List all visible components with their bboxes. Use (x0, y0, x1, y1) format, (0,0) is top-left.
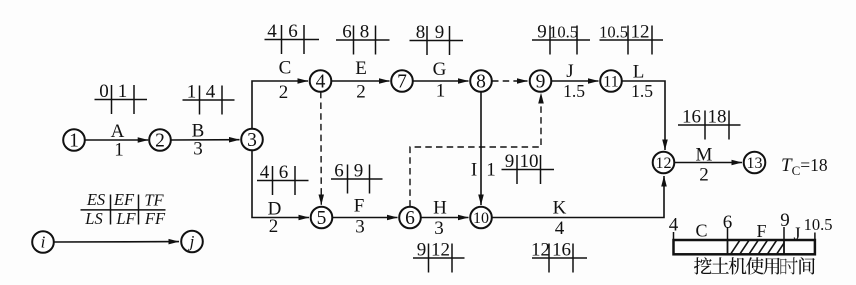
svg-text:1: 1 (436, 81, 446, 102)
svg-text:1.5: 1.5 (563, 81, 585, 101)
svg-text:5: 5 (317, 208, 327, 229)
svg-text:2: 2 (356, 82, 366, 103)
svg-text:TF: TF (144, 190, 164, 209)
svg-text:G: G (433, 59, 447, 80)
svg-text:4: 4 (206, 82, 216, 103)
svg-text:J: J (793, 224, 800, 244)
svg-text:9: 9 (780, 210, 790, 231)
svg-text:F: F (354, 196, 365, 217)
svg-text:H: H (433, 198, 447, 219)
svg-text:E: E (355, 58, 367, 79)
svg-text:4: 4 (316, 72, 326, 93)
svg-text:12: 12 (431, 240, 450, 261)
svg-text:16: 16 (682, 107, 701, 128)
svg-text:0: 0 (99, 81, 109, 102)
svg-text:L: L (633, 62, 645, 83)
svg-text:6: 6 (288, 21, 298, 42)
svg-text:1.5: 1.5 (631, 81, 653, 101)
svg-text:2: 2 (279, 82, 289, 103)
svg-text:ES: ES (86, 190, 105, 209)
svg-text:13: 13 (747, 155, 763, 172)
svg-text:3: 3 (434, 218, 444, 239)
svg-text:1: 1 (486, 160, 496, 181)
svg-text:10.5: 10.5 (804, 215, 833, 234)
svg-text:FF: FF (144, 209, 166, 228)
svg-text:9: 9 (417, 240, 427, 261)
svg-text:9: 9 (435, 22, 445, 43)
svg-text:K: K (553, 198, 567, 219)
svg-text:10.5: 10.5 (599, 23, 628, 42)
svg-text:16: 16 (552, 240, 571, 261)
svg-text:I: I (471, 160, 477, 181)
svg-text:1: 1 (187, 82, 197, 103)
svg-text:9: 9 (536, 72, 546, 93)
svg-text:12: 12 (531, 240, 550, 261)
svg-text:1: 1 (69, 131, 79, 152)
svg-text:j: j (188, 232, 195, 251)
svg-text:10.5: 10.5 (549, 23, 578, 42)
svg-text:8: 8 (476, 72, 486, 93)
svg-text:3: 3 (247, 130, 257, 151)
svg-text:9: 9 (354, 161, 364, 182)
svg-text:3: 3 (355, 217, 365, 238)
svg-text:4: 4 (267, 21, 277, 42)
svg-text:4: 4 (555, 218, 565, 239)
svg-text:9: 9 (537, 22, 547, 43)
svg-text:i: i (41, 233, 46, 252)
svg-text:LF: LF (115, 209, 136, 228)
svg-text:6: 6 (334, 161, 344, 182)
svg-text:7: 7 (397, 72, 407, 93)
svg-text:J: J (566, 61, 573, 82)
svg-text:2: 2 (155, 131, 165, 152)
svg-text:2: 2 (269, 216, 279, 237)
svg-text:8: 8 (416, 22, 426, 43)
svg-text:12: 12 (631, 22, 650, 43)
svg-text:M: M (696, 145, 713, 166)
svg-text:3: 3 (193, 139, 203, 160)
svg-text:1: 1 (118, 81, 128, 102)
svg-text:6: 6 (405, 208, 415, 229)
svg-text:4: 4 (260, 162, 270, 183)
svg-text:11: 11 (603, 74, 618, 91)
svg-text:F: F (756, 221, 766, 241)
svg-text:C: C (695, 221, 707, 241)
svg-text:6: 6 (723, 212, 733, 233)
svg-text:4: 4 (669, 215, 679, 236)
svg-text:12: 12 (656, 155, 672, 172)
svg-text:EF: EF (113, 190, 135, 209)
svg-text:9: 9 (505, 151, 515, 172)
svg-text:6: 6 (279, 162, 289, 183)
svg-text:LS: LS (84, 209, 102, 228)
svg-text:1: 1 (114, 140, 124, 161)
svg-text:10: 10 (520, 151, 539, 172)
svg-text:10: 10 (473, 210, 489, 227)
svg-text:C: C (279, 58, 292, 79)
svg-text:8: 8 (360, 22, 370, 43)
svg-text:2: 2 (699, 165, 709, 186)
svg-text:18: 18 (708, 107, 727, 128)
svg-text:6: 6 (342, 22, 352, 43)
svg-text:TC=18: TC=18 (781, 155, 828, 178)
